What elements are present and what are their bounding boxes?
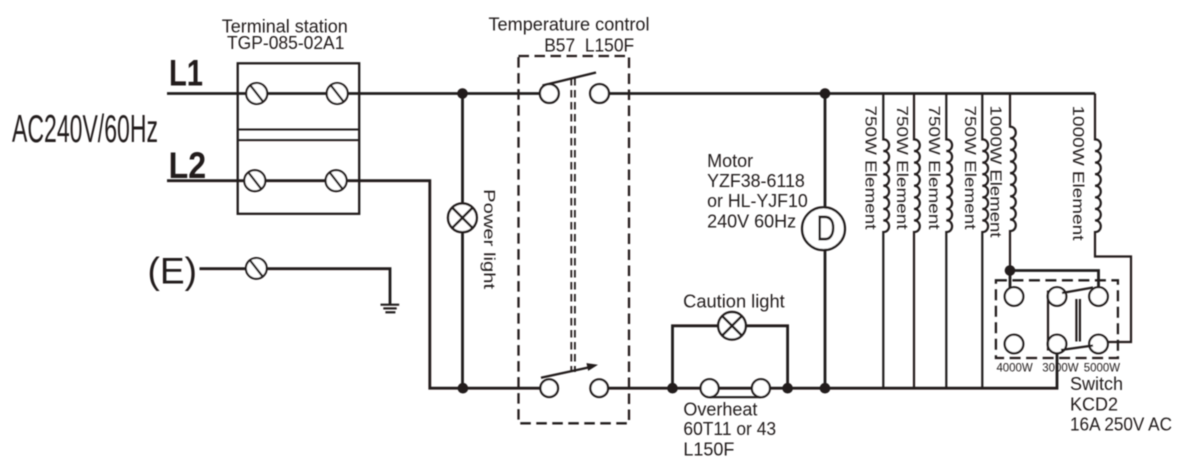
svg-text:KCD2: KCD2 (1070, 394, 1118, 414)
svg-text:240V 60Hz: 240V 60Hz (707, 212, 796, 232)
svg-text:L1: L1 (169, 53, 203, 94)
wire from node to switch 4000W terminal (1009, 271, 1012, 289)
wire power light branch (461, 94, 464, 389)
motor M1 (802, 207, 845, 250)
thermostat contact S1 lower with arrow (540, 363, 608, 397)
junction dot L1/motor (820, 88, 831, 99)
svg-text:Switch: Switch (1070, 374, 1123, 394)
switch rocker linkage (1048, 288, 1093, 351)
junction dot bottom/power light (458, 383, 469, 394)
switch terminal 4000W top (1005, 287, 1024, 306)
svg-text:AC240V/60Hz: AC240V/60Hz (12, 108, 158, 151)
svg-text:4000W: 4000W (996, 360, 1033, 374)
ground (381, 305, 400, 313)
wire earth branch (200, 269, 391, 305)
switch terminal 4000W bottom (1005, 335, 1024, 354)
switch terminal 5000W bottom (1089, 335, 1108, 354)
switch terminal 5000W top (1089, 287, 1108, 306)
svg-text:(E): (E) (148, 251, 198, 292)
screw terminal L2-b (326, 170, 347, 191)
overheat protector bridge (710, 396, 761, 398)
overheat protector contact b (752, 379, 770, 397)
heater element R4 750W (982, 94, 988, 389)
heater element R3 750W (946, 94, 952, 389)
wire caution light loop (673, 326, 788, 388)
svg-text:16A 250V AC: 16A 250V AC (1070, 414, 1172, 434)
thermostat linkage dashed double line (571, 78, 575, 372)
svg-text:Power light: Power light (480, 189, 497, 290)
screw terminal E (246, 258, 267, 279)
svg-text:3000W: 3000W (1042, 360, 1079, 374)
screw terminal L1-a (246, 83, 267, 104)
junction dot bottom/motor (820, 383, 831, 394)
thermostat contact S1 upper (540, 73, 609, 103)
screw terminal L1-b (327, 83, 348, 104)
wire motor branch (824, 94, 827, 389)
junction dot L1/power light (457, 88, 468, 99)
svg-text:or HL-YJF10: or HL-YJF10 (707, 191, 808, 211)
wire from node to switch 5000W terminal (1010, 271, 1099, 288)
svg-text:750W Element: 750W Element (961, 106, 978, 231)
svg-text:60T11 or 43: 60T11 or 43 (683, 419, 776, 439)
svg-text:L150F: L150F (683, 440, 734, 460)
svg-text:TGP-085-02A1: TGP-085-02A1 (227, 33, 344, 53)
svg-text:Temperature control: Temperature control (489, 15, 650, 35)
junction dot element5/switch (1005, 265, 1016, 276)
svg-text:D: D (816, 208, 836, 249)
power light PL1 (448, 203, 477, 232)
heater element R1 750W (883, 94, 889, 389)
wire L2 from terminal to bottom bus (167, 181, 1057, 389)
heater element R5 1000W (1010, 94, 1016, 271)
junction dot bottom/caution right (782, 383, 793, 394)
svg-text:750W Element: 750W Element (925, 106, 942, 231)
svg-text:YZF38-6118: YZF38-6118 (707, 171, 805, 191)
switch KCD2 dashed enclosure (996, 280, 1118, 358)
heater element R6 1000W (1095, 94, 1131, 343)
wire L1 top bus (167, 92, 1095, 95)
svg-text:1000W Element: 1000W Element (1069, 106, 1086, 242)
svg-text:5000W: 5000W (1084, 360, 1121, 374)
svg-text:Overheat: Overheat (683, 400, 757, 420)
screw terminal L2-a (244, 170, 265, 191)
svg-text:750W Element: 750W Element (893, 106, 910, 231)
caution light CL1 (718, 312, 746, 340)
heater element R2 750W (914, 94, 920, 389)
junction dot bottom/caution left (667, 383, 678, 394)
svg-text:750W Element: 750W Element (862, 106, 879, 231)
svg-text:B57 L150F: B57 L150F (544, 36, 634, 56)
switch terminal 3000W bottom (1048, 335, 1067, 354)
temperature control dashed enclosure (519, 56, 630, 423)
svg-text:1000W Element: 1000W Element (987, 106, 1004, 239)
terminal station TB1 box (238, 63, 360, 214)
switch terminal 3000W top (1048, 287, 1067, 306)
svg-text:Caution light: Caution light (683, 292, 785, 312)
svg-text:Motor: Motor (707, 151, 753, 171)
overheat protector contact a (701, 379, 719, 397)
